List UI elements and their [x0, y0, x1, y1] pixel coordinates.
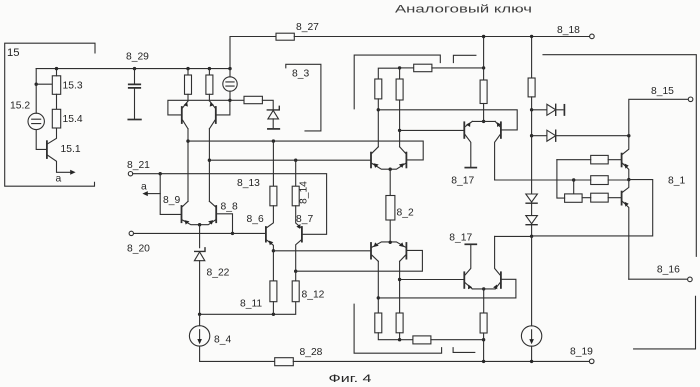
- node junction mirror resistor 1 top: [186, 67, 189, 70]
- node junction source bottom / base line: [228, 99, 231, 102]
- transistor lower 8_17 left: [463, 272, 465, 288]
- wire y=251 line to lower middle pair left base: [273, 250, 371, 252]
- wire upper-middle left collector vertical: [377, 99, 379, 147]
- wire lower-middle left collector vertical: [377, 261, 379, 313]
- transistor lower-middle left: [370, 243, 372, 259]
- svg-text:15.3: 15.3: [63, 81, 83, 92]
- transistor lower-middle right: [405, 243, 407, 259]
- transistor lower 8_17 right: [500, 272, 502, 288]
- svg-text:8_28: 8_28: [300, 347, 323, 358]
- svg-text:8_20: 8_20: [127, 244, 150, 255]
- zener diode 8_22: [195, 248, 205, 252]
- wire upper-middle right collector vertical: [399, 100, 401, 147]
- node junction 8_11 rail left: [198, 313, 201, 316]
- wire lower-middle right collector vertical: [399, 261, 401, 313]
- resistor 15.4: [52, 109, 60, 128]
- wire rail to current source: [531, 236, 533, 325]
- node junction top middle: [398, 66, 401, 69]
- svg-text:15: 15: [7, 47, 20, 59]
- node junction rail / feedback: [530, 235, 533, 238]
- resistor 8_11: [272, 251, 274, 281]
- transistor upper 8_17 right (PNP): [500, 122, 502, 138]
- node junction 8_9 base branch: [159, 172, 162, 175]
- source (8_3 bias): [229, 69, 231, 101]
- svg-text:8_18: 8_18: [557, 25, 580, 36]
- zener diode (8_3 clamp): [267, 106, 279, 110]
- wire 15.2 top lead: [36, 84, 52, 113]
- resistor (8_3 clamp series): [244, 96, 262, 103]
- node junction R4 tap: [572, 178, 575, 181]
- block 8_1 bracket right: [543, 55, 696, 257]
- ground bar under zener: [268, 128, 279, 130]
- node a arrow (block 15 output): [70, 170, 75, 175]
- terminal 8_18: [590, 34, 595, 39]
- wire y=271 line to lower middle pair right base: [296, 250, 423, 271]
- node junction y=279.5: [398, 278, 401, 281]
- wire block15 left branch: [35, 69, 37, 85]
- transistor mirror left (PNP): [181, 107, 183, 123]
- svg-text:а: а: [141, 181, 147, 192]
- node junction 8_17 lower common: [482, 287, 485, 290]
- wire 8_17 upper common top bar: [472, 120, 495, 122]
- wire rail drop: [483, 37, 485, 68]
- terminal 8_19: [589, 359, 594, 364]
- ground bar under capacitor: [128, 119, 141, 121]
- resistor (bottom middle horizontal): [400, 339, 413, 341]
- resistor (upper middle left): [378, 68, 399, 79]
- svg-text:Аналоговый ключ: Аналоговый ключ: [395, 4, 532, 16]
- block 8_1 bracket bottom right: [634, 296, 696, 349]
- transistor 8_1 lower: [621, 192, 623, 205]
- svg-text:8_3: 8_3: [292, 69, 309, 80]
- svg-text:8_17: 8_17: [449, 233, 472, 244]
- svg-text:8_22: 8_22: [207, 268, 230, 279]
- transistor 8_6: [265, 227, 267, 242]
- resistor 8_14: [295, 160, 297, 186]
- node a arrow (input marker): [148, 193, 161, 195]
- diode (down-pointing B): [526, 216, 538, 224]
- node junction cap top: [133, 67, 136, 70]
- block middle bracket bottom-left: [354, 304, 475, 353]
- wire to 8_16: [629, 278, 688, 280]
- svg-text:8_1: 8_1: [668, 176, 685, 187]
- node junction 8_17 upper common: [482, 120, 485, 123]
- transistor upper 8_17 left (PNP): [463, 122, 465, 138]
- svg-text:8_15: 8_15: [651, 86, 674, 97]
- diode (down-pointing A): [526, 194, 538, 202]
- resistor (8_17 upper common): [483, 68, 485, 80]
- wire bottoms join: [378, 333, 399, 340]
- current source 8_4: [199, 314, 201, 325]
- resistor (upper middle right): [399, 68, 401, 79]
- svg-text:8_4: 8_4: [214, 335, 231, 346]
- resistor R4 (left bottom): [565, 194, 583, 202]
- node junction on bottom rail: [530, 360, 533, 363]
- transistor mirror right (PNP): [215, 107, 217, 123]
- resistor 8_12: [292, 281, 299, 302]
- terminal 8_21: [128, 172, 132, 176]
- terminal 8_16: [688, 277, 693, 282]
- wire feedback loop: [532, 180, 653, 236]
- svg-text:8_12: 8_12: [302, 290, 325, 301]
- node junction at 483.6 bottom: [482, 338, 485, 341]
- resistor (bottom middle right): [396, 313, 403, 333]
- transistor 8_8: [215, 206, 217, 222]
- resistor 8_2: [389, 169, 391, 195]
- wire 8_17 lower common bottom bar: [472, 288, 495, 290]
- wire mirror left collector vertical: [187, 129, 189, 202]
- svg-text:8_6: 8_6: [247, 214, 264, 225]
- wire to 8_15: [629, 99, 689, 135]
- node junction 8_14 top: [294, 159, 297, 162]
- resistor (mirror right emitter): [208, 69, 210, 75]
- wire 15.2 bottom to 15.1 base: [36, 130, 46, 150]
- node junction common emitters upper-middle: [389, 168, 392, 171]
- resistor 8_13: [272, 141, 274, 186]
- wire 8_21 line: [133, 174, 327, 235]
- node junction source 8_3 top on rail: [228, 67, 231, 70]
- svg-text:8_2: 8_2: [397, 208, 414, 219]
- wire long line y=141 to middle pair right base: [188, 141, 423, 160]
- diode (right-pointing upper): [532, 109, 547, 111]
- svg-text:8_8: 8_8: [221, 202, 238, 213]
- block 8_1: resistor top: [591, 155, 609, 164]
- resistor (bottom right vertical): [480, 313, 487, 333]
- svg-text:15.1: 15.1: [61, 144, 81, 155]
- resistor 8_27: [276, 33, 294, 40]
- terminal 8_15: [688, 97, 693, 102]
- svg-text:8_16: 8_16: [657, 265, 680, 276]
- node junction midpoint: [627, 178, 630, 181]
- wire rail 8_29 top rail y=68.6: [36, 68, 230, 70]
- terminal bar after diode: [563, 105, 565, 115]
- resistor 8_28: [275, 358, 294, 366]
- resistor 15.3: [52, 76, 60, 95]
- wire line y=279.5 to lower 8_17 left base: [400, 279, 464, 281]
- resistor low: [591, 193, 609, 202]
- node junction 8_6 emitter: [272, 249, 275, 252]
- node junction common emitters lower-middle: [389, 241, 392, 244]
- wire right rail top: [531, 36, 533, 78]
- node junction diode 1: [530, 108, 533, 111]
- diode (right-pointing lower): [532, 135, 547, 137]
- resistor mid: [591, 176, 609, 185]
- node junction common emitters 8_9/8_8: [198, 223, 201, 226]
- ground bar (8_17 upper): [465, 167, 476, 169]
- node junction on 8_20 line: [231, 232, 234, 235]
- node junction y=110: [377, 108, 380, 111]
- node junction on 8_27 rail: [482, 35, 485, 38]
- node junction on y=160 line: [208, 159, 211, 162]
- transistor 8_1 upper: [621, 154, 623, 167]
- node junction 8_13 top: [272, 139, 275, 142]
- wire tap down to R4: [573, 180, 575, 194]
- svg-text:8_13: 8_13: [237, 178, 260, 189]
- wire 15.3 to 15.4: [56, 94, 58, 109]
- node junction on y=141 line: [186, 139, 189, 142]
- svg-text:Фиг. 4: Фиг. 4: [329, 373, 372, 385]
- svg-text:8_19: 8_19: [570, 347, 593, 358]
- wire rail between diodes: [531, 110, 533, 136]
- svg-text:8_17: 8_17: [451, 176, 474, 187]
- capacitor 8_29: [134, 69, 136, 84]
- node junction 15.3 top on rail: [55, 67, 58, 70]
- wire mirror right collector vertical: [208, 129, 210, 202]
- transistor upper-middle right: [405, 153, 407, 168]
- svg-text:8_14: 8_14: [299, 181, 310, 204]
- node junction bottom: [398, 338, 401, 341]
- wire 8_20 line: [134, 232, 266, 234]
- transistor upper-middle left: [370, 153, 372, 168]
- wire lower 8_17 right collector to rail: [495, 235, 532, 237]
- node junction y=130: [398, 129, 401, 132]
- resistor (bottom middle left): [375, 313, 382, 333]
- block 8_3 bracket: [286, 64, 321, 131]
- svg-text:а: а: [56, 174, 62, 185]
- svg-text:8_27: 8_27: [296, 22, 319, 33]
- node junction diode 2: [530, 134, 533, 137]
- node junction mirror resistor 2 top: [208, 67, 211, 70]
- block middle bracket top-left: [354, 55, 476, 109]
- node junction right rail top: [530, 35, 533, 38]
- svg-text:8_7: 8_7: [296, 214, 313, 225]
- terminal 8_20: [129, 231, 133, 235]
- wire common emitter down: [199, 225, 201, 248]
- svg-text:8_11: 8_11: [240, 299, 262, 310]
- wire long line y=160 to middle pair left base: [209, 159, 371, 161]
- wire mirror base line: [168, 100, 230, 115]
- svg-text:8_21: 8_21: [127, 160, 150, 171]
- svg-text:15.4: 15.4: [63, 114, 83, 125]
- svg-text:8_29: 8_29: [126, 52, 149, 63]
- transistor 8_7: [301, 227, 303, 242]
- wire 8_8 base to 8_20 line: [217, 214, 232, 234]
- transistor 15.1: [46, 141, 48, 158]
- block 15 frame: [5, 43, 95, 186]
- node junction under rail: [482, 66, 485, 69]
- current source (right): [521, 326, 541, 346]
- ground bar (8_17 lower): [465, 243, 476, 245]
- wire line y=130 to upper 8_17 left base: [400, 129, 464, 131]
- node junction y=298: [377, 296, 380, 299]
- wire 8_11/8_12 bottom rail: [200, 302, 296, 315]
- node junction diode line / collector: [627, 134, 630, 137]
- resistor (top middle horizontal): [400, 67, 414, 69]
- resistor (right rail): [528, 78, 535, 97]
- wire rail down: [531, 136, 533, 194]
- wire base line to 8_3 clamp: [230, 99, 244, 101]
- source 15.2: [28, 113, 44, 129]
- wire rail corner up to 8_27 line: [230, 37, 276, 69]
- resistor (mirror left emitter): [187, 69, 189, 75]
- transistor 8_9: [181, 206, 183, 222]
- wire 8_9 base branch: [160, 174, 180, 215]
- wire line y=110 to upper 8_17 right base: [378, 110, 517, 130]
- node junction 15.2 top: [35, 83, 38, 86]
- wire line y=298 to lower 8_17 right base: [378, 279, 516, 298]
- wire common down to resistor: [483, 289, 485, 313]
- node junction on bottom rail: [482, 360, 485, 363]
- svg-text:8_9: 8_9: [163, 195, 180, 206]
- svg-text:15.2: 15.2: [10, 101, 30, 112]
- node junction 8_7 collector: [294, 270, 297, 273]
- node junction 8_11 bottom: [272, 313, 275, 316]
